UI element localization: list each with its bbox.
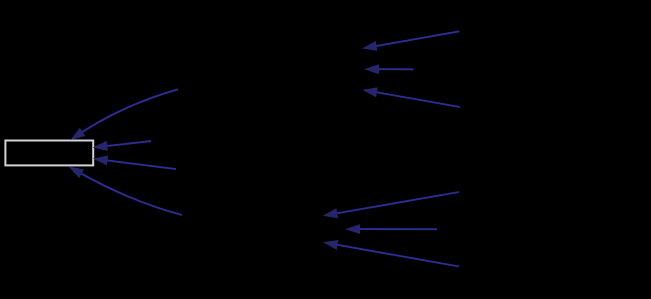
top cluster arrow B : arrowhead [364, 64, 379, 74]
bottom cluster arrow F : arrowhead [323, 240, 338, 250]
top cluster arrow A : arrowhead [362, 41, 377, 51]
bottom cluster arrow F : shaft [336, 245, 459, 267]
top cluster arrow B : shaft [378, 68, 414, 70]
arrow into box right edge upper : arrowhead [93, 141, 108, 151]
bottom cluster arrow D : arrowhead [323, 208, 338, 218]
arrow into box right edge lower : shaft [106, 160, 176, 169]
arrow into box top edge (curved) : shaft [81, 89, 178, 132]
bottom cluster arrow E : shaft [359, 228, 437, 230]
bottom cluster arrow E : arrowhead [345, 224, 360, 234]
top cluster arrow C : shaft [376, 92, 461, 107]
top cluster arrow A : shaft [375, 31, 459, 46]
answer box (empty label box) [5, 141, 93, 166]
arrow into box top edge (curved) : arrowhead [70, 128, 85, 140]
arrow into box right edge upper : shaft [106, 141, 151, 146]
arrow into box bottom edge (curved) : arrowhead [69, 167, 84, 179]
arrow into box right edge lower : arrowhead [93, 156, 108, 166]
arrow into box bottom edge (curved) : shaft [80, 173, 182, 215]
top cluster arrow C : arrowhead [362, 87, 377, 97]
bottom cluster arrow D : shaft [336, 192, 459, 214]
